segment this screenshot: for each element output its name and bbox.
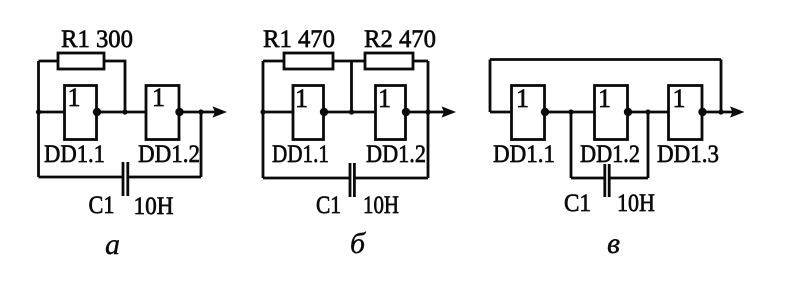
wire: circuit v node2 vertical to capacitor [647,112,650,178]
arrowhead circuit b output [442,106,457,117]
wire: circuit v left vertical [489,60,492,113]
svg-text:10Н: 10Н [134,193,174,220]
junction dot circuit b output node [425,109,430,114]
arrowhead circuit v output [730,106,745,117]
svg-text:1: 1 [152,83,165,112]
svg-text:DD1.1: DD1.1 [44,141,105,168]
arrowhead circuit a output [213,106,228,117]
wire: circuit a bottom left segment [39,176,124,179]
wire: resistor R1 right to node [104,61,125,112]
resistor R1 (470) body [284,53,333,69]
logic gate DD1.2 body [146,86,179,140]
capacitor C1 left plate (circuit v) [603,164,606,197]
wire: circuit v bottom right segment [609,177,648,180]
wire: DD1.2 to DD1.3 (circuit v) [628,111,669,114]
svg-text:C1: C1 [316,192,341,219]
wire: DD1.1 to DD1.2 (circuit v) [545,111,595,114]
logic gate DD1.3 body (circuit v) [669,86,703,140]
svg-text:C1: C1 [564,190,591,217]
wire: circuit b top to resistor R1 [263,60,284,63]
junction dot circuit a output node [198,109,203,114]
svg-text:1: 1 [673,84,686,113]
wire: circuit b left vertical [262,61,265,178]
wire: R2 right to right vertical [413,60,428,63]
wire: DD1.2 output to arrow [179,111,218,114]
wire: DD1.1 output to DD1.2 input [97,111,147,114]
wire: circuit b input wire [263,111,293,114]
junction dot circuit b input node [260,109,265,114]
wire: mid node vertical circuit b [350,61,353,112]
resistor R2 (470) body [365,53,413,69]
capacitor C1 left plate [122,162,125,196]
logic gate DD1.1 body (circuit b) [293,86,324,140]
output dot DD1.1 (circuit v) [541,108,549,116]
logic gate DD1.2 body (circuit b) [376,86,406,140]
output dot DD1.2 (circuit b) [402,108,410,116]
output dot DD1.2 (circuit a) [175,108,183,116]
wire: circuit b bottom right segment [354,177,428,180]
wire: DD1.3 output to arrow [702,111,735,114]
svg-text:DD1.2: DD1.2 [366,141,426,168]
svg-text:DD1.3: DD1.3 [657,141,719,168]
junction dot circuit v output node [718,109,723,114]
wire: DD1.2 output to arrow (circuit b) [406,111,448,114]
output dot DD1.1 (circuit a) [93,108,101,116]
wire: DD1.1 to DD1.2 (circuit b) [324,111,376,114]
svg-text:R1 470: R1 470 [263,26,335,53]
logic gate DD1.2 body (circuit v) [595,86,628,140]
junction dot circuit b mid node [349,109,354,114]
junction dot circuit v node2 [645,109,650,114]
capacitor C1 left plate (circuit b) [349,163,352,197]
svg-text:DD1.1: DD1.1 [493,141,555,168]
svg-text:DD1.2: DD1.2 [580,141,640,168]
junction dot circuit a input node [36,109,41,114]
wire: circuit a input wire [39,111,65,114]
logic gate DD1.1 body [65,86,97,140]
wire: circuit v input wire [490,111,512,114]
svg-text:1: 1 [378,84,391,113]
svg-text:а: а [105,228,120,261]
junction dot circuit v node1 [568,109,573,114]
wire: circuit v node1 vertical to capacitor [570,112,573,178]
wire: circuit v top feedback [490,58,721,61]
wire: circuit v bottom left segment [571,177,605,180]
svg-text:1: 1 [598,84,611,113]
logic gate DD1.1 body (circuit v) [512,86,545,140]
junction dot circuit a mid node [122,109,127,114]
svg-text:10Н: 10Н [617,190,655,217]
resistor R1 (300) body [58,53,104,69]
svg-text:1: 1 [516,84,529,113]
wire: circuit a right vertical [200,112,203,177]
wire: circuit a bottom right segment [128,176,201,179]
svg-text:1: 1 [68,83,81,112]
svg-text:б: б [350,227,366,260]
capacitor C1 right plate [126,162,129,196]
svg-text:DD1.1: DD1.1 [272,141,329,168]
svg-text:в: в [607,227,620,260]
wire: circuit b right vertical [427,61,430,178]
wire: circuit v feedback right vertical [720,60,723,113]
svg-text:1: 1 [295,84,308,113]
svg-text:10Н: 10Н [363,192,399,219]
capacitor C1 right plate (circuit v) [608,164,611,197]
output dot DD1.2 (circuit v) [624,108,632,116]
svg-text:R1 300: R1 300 [61,26,133,53]
output dot DD1.3 (circuit v) [698,108,706,116]
capacitor C1 right plate (circuit b) [353,163,356,197]
wire: circuit a top feedback to resistor [39,60,59,63]
svg-text:C1: C1 [89,192,115,219]
wire: R1 right to R2 left [333,60,365,63]
output dot DD1.1 (circuit b) [320,108,328,116]
svg-text:DD1.2: DD1.2 [138,141,200,168]
svg-text:R2 470: R2 470 [364,26,436,53]
wire: circuit a left vertical [37,61,40,177]
wire: circuit b bottom left segment [263,177,350,180]
